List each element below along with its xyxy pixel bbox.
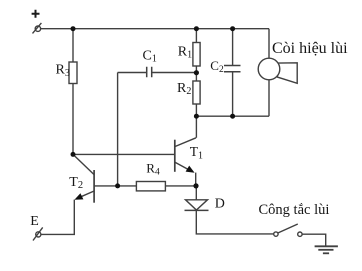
wire T2 emitter to E terminal: [41, 200, 74, 235]
svg-text:R1: R1: [178, 45, 192, 61]
capacitor C1: [147, 67, 152, 77]
plus sign: [32, 10, 40, 18]
resistor R2: [193, 81, 200, 104]
junction node T2 base / C1 branch: [115, 183, 120, 188]
wire C1 left lead: [118, 72, 147, 74]
wire R4 to node D: [165, 185, 196, 187]
wire C1 right lead to node B: [152, 72, 197, 74]
transistor T2 base bar: [93, 170, 95, 203]
wire top rail: [41, 28, 269, 30]
wire node A to T1 base: [73, 153, 174, 155]
transistor T1 collector lead: [175, 138, 196, 147]
terminal E: [36, 232, 41, 237]
horn cone: [277, 63, 297, 84]
wire R3 bottom to node A: [72, 84, 74, 155]
ground: [315, 245, 338, 247]
terminal + (positive supply): [35, 26, 40, 31]
svg-text:E: E: [30, 214, 39, 229]
resistor R1: [193, 43, 200, 67]
svg-text:T2: T2: [69, 175, 83, 191]
wire T2 base to R4: [94, 185, 136, 187]
T1 emitter arrow: [186, 166, 195, 173]
switch còng tắc lùi: [274, 232, 278, 236]
transistor T2 emitter lead: [79, 191, 95, 198]
junction node A (R3-T1 base-T2 collector): [71, 152, 76, 157]
wire T1 emitter down to node D: [195, 173, 197, 186]
junction node B (R1-R2-C1): [194, 70, 199, 75]
junction node top-left: [71, 26, 76, 31]
svg-text:D: D: [215, 197, 225, 212]
horn circle: còi hiệu lùi: [258, 58, 280, 80]
junction node top R1: [194, 26, 199, 31]
svg-text:R3: R3: [56, 63, 70, 79]
svg-text:Công tắc lùi: Công tắc lùi: [259, 202, 330, 218]
resistor R3: [69, 62, 77, 84]
resistor R4: [136, 182, 165, 191]
wire top rail to R1: [195, 29, 197, 43]
svg-text:T1: T1: [190, 144, 203, 161]
svg-text:C2: C2: [210, 58, 224, 75]
wire C1 branch down to T2 base node: [117, 73, 119, 187]
wire left branch to R3: [72, 29, 74, 62]
junction node C2 bottom: [230, 114, 235, 119]
transistor T1 base bar: [174, 140, 176, 172]
wire horn bottom: [268, 80, 270, 116]
capacitor C2: [224, 66, 241, 72]
svg-text:C1: C1: [143, 49, 157, 65]
junction node C (R2-C2 bottom): [194, 114, 199, 119]
diode D: [186, 200, 208, 210]
wire switch to ground: [302, 234, 326, 246]
wire top rail down to horn: [268, 29, 270, 59]
T2 emitter arrow: [74, 193, 83, 200]
junction node top C2: [230, 26, 235, 31]
transistor T2 collector lead: [73, 154, 94, 174]
svg-text:R2: R2: [177, 81, 191, 97]
svg-text:R4: R4: [146, 160, 160, 177]
wire node D to diode: [195, 186, 197, 200]
wire diode to switch: [196, 210, 273, 234]
wire top rail to C2: [232, 29, 234, 66]
svg-text:Còi hiệu lùi: Còi hiệu lùi: [272, 40, 348, 57]
transistor T1 emitter lead: [175, 162, 192, 171]
wire R1 to R2 through node B: [195, 66, 197, 81]
wire C2 bottom lead: [232, 72, 234, 117]
wire R2 bottom through node C to T1 collector: [195, 104, 197, 138]
junction node D (R4-T1 emitter-diode): [193, 183, 198, 188]
wire node C to horn bottom: [196, 115, 269, 117]
